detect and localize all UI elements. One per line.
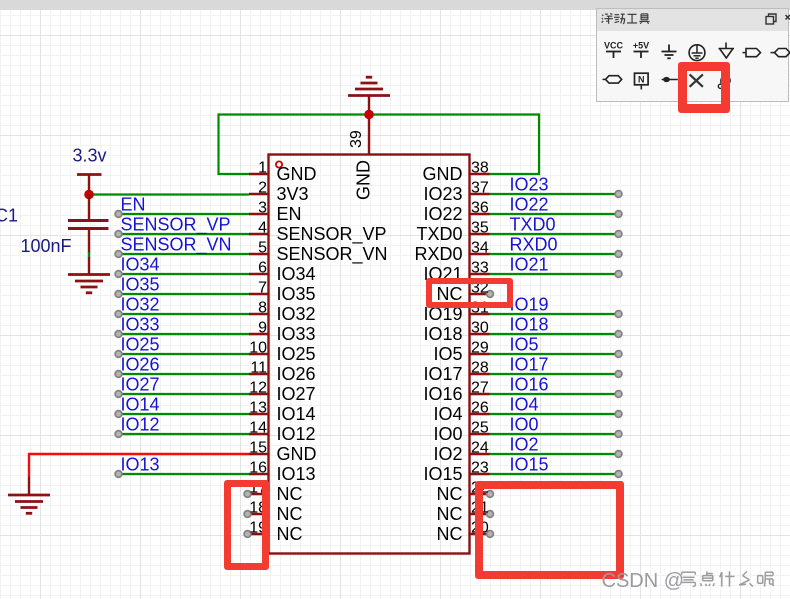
panel title text 浮动工具 xyxy=(602,15,603,16)
pin 30 stub xyxy=(470,333,490,335)
pin 6 stub xyxy=(249,273,269,275)
wire: C1 to ground xyxy=(88,229,90,254)
pin 31 stub xyxy=(470,313,490,315)
ground symbol below C1 xyxy=(68,273,110,276)
wire: junction down to C1 xyxy=(88,195,90,221)
pin 26 stub xyxy=(470,413,490,415)
pin 13 stub xyxy=(249,413,269,415)
wire: net IO26 (pin 11) xyxy=(119,373,250,375)
pin 9 stub xyxy=(249,333,269,335)
pin 21 stub xyxy=(470,513,491,515)
wire: net IO32 (pin 8) xyxy=(119,313,250,315)
wire: net SENSOR_VN (pin 5) xyxy=(119,253,250,255)
icon: netflag N xyxy=(635,73,649,85)
wire: net IO23 (pin 37) xyxy=(490,193,619,195)
wire: net IO14 (pin 13) xyxy=(119,413,250,415)
pin 25 stub xyxy=(470,433,490,435)
wire: net TXD0 (pin 35) xyxy=(490,233,619,235)
panel restore icon xyxy=(766,17,774,25)
icon: netport right xyxy=(743,52,747,54)
wire: red GND wire from pin15 to ground xyxy=(29,454,249,477)
pin 3 stub xyxy=(249,213,269,215)
wire: net IO35 (pin 7) xyxy=(119,293,250,295)
icon: probe hook xyxy=(718,84,722,88)
pin 18 stub xyxy=(248,513,269,515)
wire: net IO19 (pin 31) xyxy=(490,313,619,315)
icon: no-connect flag X xyxy=(690,74,703,86)
wire: net EN (pin 3) xyxy=(119,213,250,215)
pin 5 stub xyxy=(249,253,269,255)
annotation box around pins 17-19 xyxy=(224,480,269,570)
pin 32 stub xyxy=(470,293,491,295)
IC U1 ESP32 symbol body xyxy=(269,155,470,554)
wire: net IO21 (pin 33) xyxy=(490,273,619,275)
ground symbol lower-left xyxy=(28,477,30,496)
icon: chassis ground xyxy=(725,43,727,49)
node: junction dot on GND loop xyxy=(364,110,374,120)
icon: netport bidirectional (clipped) xyxy=(771,52,775,54)
pin 33 stub xyxy=(470,273,490,275)
pin 10 stub xyxy=(249,353,269,355)
wire: net IO33 (pin 9) xyxy=(119,333,250,335)
pin 11 stub xyxy=(249,373,269,375)
pin 28 stub xyxy=(470,373,490,375)
annotation box around NC pin 32 xyxy=(426,278,513,309)
wire: net IO5 (pin 29) xyxy=(490,353,619,355)
ground symbol above chip (flipped) xyxy=(348,94,390,97)
wire: net IO0 (pin 25) xyxy=(490,433,619,435)
wire: net IO15 (pin 23) xyxy=(490,473,619,475)
icon: net probe arrow xyxy=(662,79,678,81)
pin 24 stub xyxy=(470,453,490,455)
pin 29 stub xyxy=(470,353,490,355)
wire: net IO18 (pin 30) xyxy=(490,333,619,335)
pin 8 stub xyxy=(249,313,269,315)
icon: earth ground xyxy=(689,45,705,61)
pin 22 stub xyxy=(470,493,491,495)
wire: net IO12 (pin 14) xyxy=(119,433,250,435)
power flag 3.3v bar xyxy=(77,173,102,176)
annotation box bottom right xyxy=(475,481,624,580)
icon: netport hexagon xyxy=(603,78,607,80)
pin 14 stub xyxy=(249,433,269,435)
pin 4 stub xyxy=(249,233,269,235)
icon: GND ground xyxy=(668,45,670,52)
node 3V3: junction dot xyxy=(84,190,94,200)
pin 36 stub xyxy=(470,213,490,215)
pin 20 stub xyxy=(470,533,491,535)
pin 7 stub xyxy=(249,293,269,295)
wire: top ground to pin 39 xyxy=(368,96,370,155)
wire: net IO34 (pin 6) xyxy=(119,273,250,275)
pin 35 stub xyxy=(470,233,490,235)
top toolbar remnant bar xyxy=(0,0,790,10)
wire: net IO16 (pin 27) xyxy=(490,393,619,395)
pin 37 stub xyxy=(470,193,490,195)
wire: net IO13 (pin 16) xyxy=(119,473,250,475)
panel close icon (clipped) xyxy=(786,15,790,20)
floating tool panel 浮动工具 xyxy=(596,8,789,102)
pin 15 stub xyxy=(249,453,269,455)
wire: net RXD0 (pin 34) xyxy=(490,253,619,255)
pin 38 stub xyxy=(470,173,490,175)
wire: net SENSOR_VP (pin 4) xyxy=(119,233,250,235)
wire: net IO25 (pin 10) xyxy=(119,353,250,355)
wire: net IO4 (pin 26) xyxy=(490,413,619,415)
wire: net IO22 (pin 36) xyxy=(490,213,619,215)
pin 23 stub xyxy=(470,473,490,475)
wire: net IO17 (pin 28) xyxy=(490,373,619,375)
pin 17 stub xyxy=(248,493,269,495)
pin 1 indicator circle xyxy=(276,161,282,167)
pin 34 stub xyxy=(470,253,490,255)
capacitor C1 plates xyxy=(68,219,109,222)
pin 19 stub xyxy=(248,533,269,535)
pin 12 stub xyxy=(249,393,269,395)
svg-text:CSDN @: CSDN @ xyxy=(602,570,685,592)
pin 1 stub xyxy=(249,173,269,175)
wire: net IO27 (pin 12) xyxy=(119,393,250,395)
pin 16 stub xyxy=(249,473,269,475)
wire: GND loop pin1 to pin38 over chip top xyxy=(219,115,540,175)
pin 27 stub xyxy=(470,393,490,395)
wire: net IO2 (pin 24) xyxy=(490,453,619,455)
wire: 3V3 from pin2 to C1 node xyxy=(89,193,249,195)
pin 2 stub xyxy=(249,193,269,195)
annotation box around X icon xyxy=(678,62,731,113)
